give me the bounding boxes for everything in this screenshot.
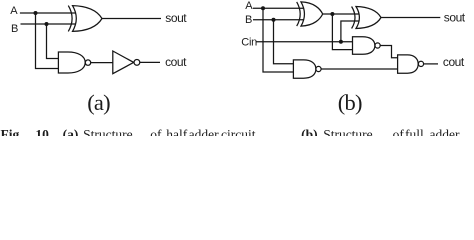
node junction dot on Cin (b) [339, 40, 343, 44]
svg-text:of: of [393, 127, 405, 136]
svg-text:Structure: Structure [323, 127, 373, 136]
wire branch XOR1 output down to NAND2 bottom input (b) [332, 14, 352, 50]
xor-gate U4 (b) : input arc [297, 2, 301, 26]
svg-text:(b): (b) [301, 127, 318, 136]
wire sout output (a) [102, 18, 161, 20]
nand-gate U6 (b) : bubble [375, 43, 380, 48]
svg-text:of: of [150, 127, 162, 136]
nand-gate U6 (b) : body [353, 37, 375, 55]
nand-gate U7 (b) : body [293, 60, 316, 78]
svg-text:full: full [405, 127, 424, 136]
svg-text:adder: adder [430, 127, 460, 136]
svg-text:Structure: Structure [83, 127, 133, 136]
node junction dot on A (b) [261, 6, 265, 10]
xor-gate U1 (a) : input arc [68, 6, 72, 32]
svg-text:cout: cout [443, 55, 465, 69]
wire NAND to inverter (a) [91, 62, 113, 64]
wire input A (b) [253, 7, 305, 9]
nand-gate U8 (b) : bubble [418, 61, 423, 66]
svg-text:cout: cout [165, 55, 187, 69]
nand-gate U2 (a) : bubble [85, 60, 90, 65]
svg-text:circuit.: circuit. [221, 127, 259, 136]
node junction dot XOR1 output (b) [330, 12, 334, 16]
node junction dot on B (b) [272, 18, 276, 22]
nand-gate U2 (a) : body [58, 52, 85, 73]
svg-text:10: 10 [35, 127, 49, 136]
wire XOR1 output to XOR2 (b) [323, 13, 360, 15]
wire NAND3 output to NAND4 bottom input (b) [321, 68, 398, 70]
wire branch B down to NAND3 top input (b) [274, 20, 294, 64]
nand-gate U7 (b) : bubble [316, 66, 321, 71]
wire NAND2 output routed to NAND4 top input (b) [380, 46, 397, 58]
svg-text:A: A [245, 0, 253, 12]
svg-text:sout: sout [165, 11, 187, 25]
xor-gate U4 (b) : body [301, 2, 323, 26]
wire branch A down to NAND3 bottom input (b) [263, 8, 293, 72]
wire input Cin (b) [257, 41, 353, 43]
wire branch B down to NAND top input (a) [47, 24, 59, 59]
wire input A (a) [20, 12, 77, 14]
wire input B (b) [253, 19, 305, 21]
svg-text:sout: sout [444, 10, 466, 24]
wire input B (a) [21, 23, 77, 25]
inverter U3 (a) : triangle [113, 51, 134, 74]
svg-text:A: A [10, 5, 18, 17]
nand-gate U8 (b) : body [398, 55, 419, 73]
wire cout output (a) [140, 61, 160, 63]
svg-text:half: half [166, 127, 187, 136]
svg-text:B: B [245, 14, 252, 26]
svg-text:Fig.: Fig. [1, 127, 23, 136]
svg-text:(b): (b) [338, 90, 362, 115]
wire sout output (b) [381, 17, 440, 19]
wire cout output (b) [424, 63, 438, 65]
wire branch A down to NAND bottom input (a) [36, 13, 59, 69]
svg-text:(a): (a) [63, 127, 79, 136]
svg-text:adder: adder [189, 127, 219, 136]
xor-gate U5 (b) : input arc [352, 7, 355, 29]
svg-text:(a): (a) [87, 90, 110, 115]
svg-text:B: B [11, 23, 18, 35]
xor-gate U5 (b) : body [356, 7, 381, 29]
node junction dot on A (a) [34, 11, 38, 15]
xor-gate U1 (a) : body [73, 6, 103, 32]
svg-text:Cin: Cin [241, 36, 257, 48]
inverter U3 (a) : bubble [134, 60, 140, 66]
wire branch Cin up to XOR2 bottom input (b) [341, 21, 360, 42]
node junction dot on B (a) [45, 22, 49, 26]
